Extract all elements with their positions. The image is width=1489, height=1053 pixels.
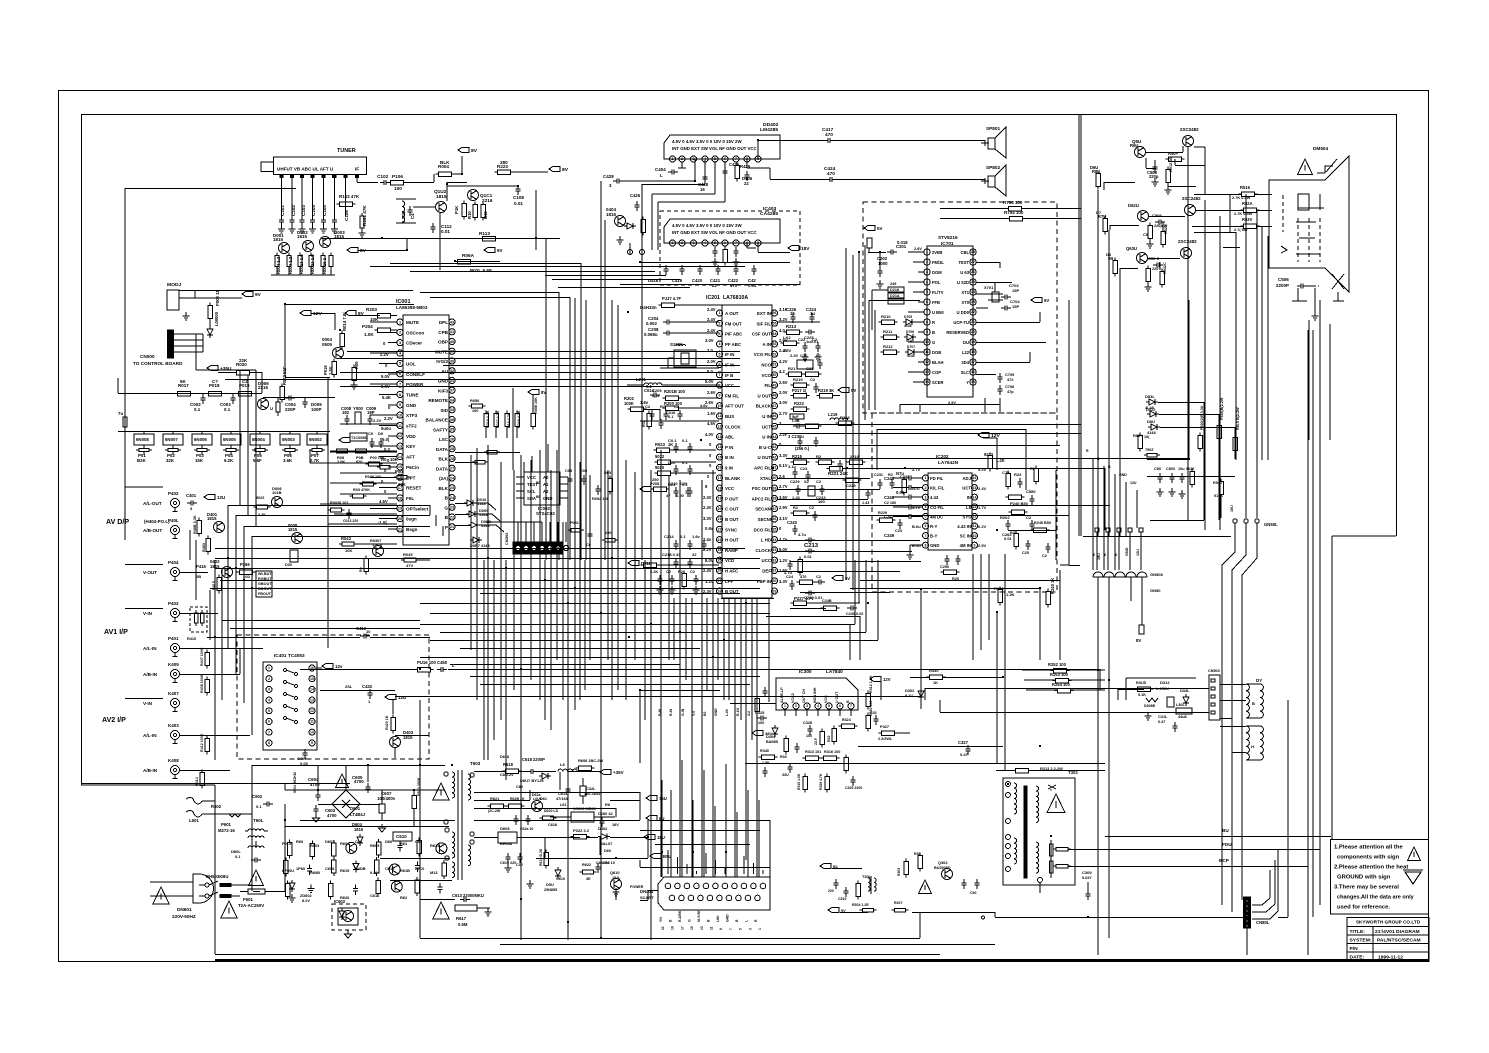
capacitor C204 C208	[644, 316, 719, 337]
svg-text:9: 9	[719, 394, 721, 398]
svg-text:VCC: VCC	[725, 383, 735, 388]
FBT bottom pin	[1038, 870, 1093, 900]
svg-text:2.7V: 2.7V	[779, 484, 788, 489]
svg-text:43: 43	[773, 445, 777, 449]
svg-text:4148: 4148	[907, 354, 915, 358]
svg-text:BLK: BLK	[440, 160, 450, 165]
svg-text:RESERVED: RESERVED	[946, 330, 969, 335]
op-amp IC201 LA76810 box	[706, 295, 772, 598]
heater circuit parts	[1147, 460, 1235, 499]
svg-text:14: 14	[973, 495, 977, 499]
horizontal out parts	[914, 852, 980, 895]
svg-text:LA76810A: LA76810A	[723, 295, 748, 301]
scart bottom labels	[661, 926, 762, 930]
svg-text:INT GND EXT SW VOL NF GND: INT GND EXT SW VOL NF GND OUT VCC	[672, 146, 758, 151]
svg-text:A/L-OUT: A/L-OUT	[143, 501, 162, 506]
svg-text:100P: 100P	[311, 407, 321, 412]
svg-text:C616: C616	[548, 823, 557, 827]
wire crt rgb feeds	[1192, 147, 1272, 227]
svg-text:LA7642N: LA7642N	[938, 460, 959, 465]
svg-text:LM4285: LM4285	[760, 127, 778, 133]
svg-text:C21: C21	[806, 366, 814, 371]
power extra wires	[474, 772, 640, 858]
svg-text:GN508: GN508	[1150, 572, 1163, 577]
svg-text:C328: C328	[803, 721, 812, 725]
svg-text:P00: P00	[395, 469, 403, 474]
svg-text:6N006: 6N006	[194, 437, 207, 442]
svg-text:5.0(: 5.0(	[382, 437, 390, 442]
svg-text:R249 B50: R249 B50	[1034, 521, 1051, 525]
svg-text:C05: C05	[565, 468, 573, 473]
P403 dashed box	[187, 607, 207, 641]
svg-text:(H404-PO.L): (H404-PO.L)	[144, 519, 170, 524]
svg-text:UCC: UCC	[762, 558, 772, 563]
driver transformer T301	[838, 874, 909, 912]
svg-text:R049 4.7K: R049 4.7K	[517, 410, 521, 428]
svg-text:C310: C310	[838, 897, 846, 901]
IC001 pin voltage labels	[378, 341, 393, 525]
svg-text:11: 11	[925, 350, 929, 354]
IC201 left pins	[717, 310, 745, 594]
svg-text:PU16 100: PU16 100	[417, 660, 437, 665]
snubber C610 box	[393, 832, 412, 841]
svg-text:0.01: 0.01	[441, 229, 450, 234]
svg-text:50: 50	[773, 373, 777, 377]
flag 5V ic701	[864, 225, 882, 252]
svg-text:SIF FIL: SIF FIL	[756, 321, 771, 326]
svg-text:C31L: C31L	[1158, 714, 1168, 719]
svg-text:54: 54	[773, 332, 777, 336]
inductor L201	[627, 377, 719, 398]
svg-text:R622: R622	[582, 863, 591, 867]
svg-text:D60: D60	[385, 839, 392, 844]
svg-text:D402: D402	[598, 826, 607, 831]
svg-text:15: 15	[718, 455, 722, 459]
svg-text:100: 100	[472, 409, 478, 413]
svg-text:3: 3	[399, 341, 401, 345]
svg-text:2.0K: 2.0K	[337, 459, 345, 464]
svg-text:PAL/NTSC/SECAM: PAL/NTSC/SECAM	[1377, 938, 1421, 944]
IC202 dashed box	[872, 413, 1057, 592]
wire R017 rail	[118, 378, 262, 540]
svg-text:B-IN: B-IN	[658, 708, 662, 716]
svg-text:D5U: D5U	[546, 882, 554, 887]
svg-text:GND: GND	[930, 543, 939, 548]
notes warning triangle sign	[1407, 847, 1420, 861]
svg-text:U IN: U IN	[762, 435, 771, 440]
svg-text:25: 25	[971, 280, 975, 284]
svg-text:B.0u: B.0u	[912, 543, 921, 548]
svg-text:C2: C2	[812, 337, 818, 342]
svg-text:2: 2	[681, 157, 683, 161]
wire cn801 steps	[1252, 850, 1278, 919]
resistor R017	[175, 379, 194, 396]
resistor R525 rot	[1217, 397, 1224, 441]
svg-text:3.2V: 3.2V	[779, 317, 788, 322]
resistor P322 2.2	[571, 826, 613, 846]
svg-text:21'/4V01 DIAGRAM: 21'/4V01 DIAGRAM	[1375, 929, 1420, 935]
svg-text:1.2V: 1.2V	[779, 558, 788, 563]
svg-text:100: 100	[806, 734, 812, 738]
transistor D401	[193, 512, 225, 555]
wire right edge verticals	[1278, 700, 1288, 918]
svg-text:C326 2200: C326 2200	[845, 786, 862, 790]
svg-text:10: 10	[310, 730, 314, 734]
svg-text:P02L 5.6F: P02L 5.6F	[470, 268, 492, 273]
svg-text:R4DB: R4DB	[355, 866, 366, 871]
svg-text:35: 35	[450, 428, 454, 432]
capacitor C002	[190, 394, 206, 412]
svg-text:4.6v: 4.6v	[700, 403, 708, 408]
svg-text:F0L: F0L	[406, 496, 414, 501]
svg-text:D705: D705	[904, 315, 912, 319]
transistor Q102	[434, 189, 447, 213]
svg-text:DATE:: DATE:	[1350, 955, 1365, 961]
svg-text:40: 40	[773, 476, 777, 480]
svg-text:8.2V: 8.2V	[302, 898, 310, 903]
svg-text:4.7u: 4.7u	[779, 537, 788, 542]
svg-text:3: 3	[268, 688, 270, 692]
svg-text:7: 7	[268, 730, 270, 734]
svg-text:D308B: D308B	[1144, 704, 1155, 708]
svg-text:REMOTE: REMOTE	[428, 398, 448, 403]
svg-text:9V: 9V	[497, 248, 502, 253]
svg-text:3D4: 3D4	[961, 360, 969, 365]
capacitor C004 220P	[285, 396, 296, 413]
svg-text:3.0V: 3.0V	[705, 338, 714, 343]
capacitor C504	[1143, 213, 1168, 248]
flag 12V ic202	[978, 432, 1001, 470]
svg-text:R21: R21	[788, 366, 796, 371]
svg-text:C106: C106	[344, 210, 349, 221]
component vco cluster	[786, 353, 823, 376]
svg-text:R050: R050	[470, 398, 479, 403]
transistor Q502	[1128, 196, 1201, 222]
wire bus mid right extra	[850, 570, 1060, 660]
resistor P019	[236, 379, 255, 396]
svg-text:15: 15	[310, 677, 314, 681]
svg-text:C30: C30	[970, 891, 977, 895]
svg-text:1815: 1815	[436, 194, 447, 199]
svg-text:OSCcon: OSCcon	[406, 330, 424, 335]
svg-text:C611: C611	[370, 893, 380, 898]
svg-text:0.002: 0.002	[646, 321, 657, 326]
svg-text:TO CONTROL BOARD: TO CONTROL BOARD	[133, 361, 183, 366]
IC201 left voltage labels	[703, 307, 716, 594]
wire ic002 up	[524, 444, 548, 472]
wire scart ups	[668, 850, 763, 874]
capacitor C108	[513, 185, 524, 206]
svg-text:P017 4.7K: P017 4.7K	[496, 410, 500, 428]
svg-text:R8L5 B(2-2W: R8L5 B(2-2W	[1236, 407, 1240, 430]
svg-text:XTF3: XTF3	[406, 413, 418, 418]
svg-text:R058 10K: R058 10K	[534, 397, 538, 414]
svg-text:DCO FIL: DCO FIL	[754, 527, 772, 532]
transistor D007 1815	[359, 538, 384, 575]
svg-text:P401: P401	[168, 636, 179, 641]
svg-text:C506: C506	[1278, 277, 1289, 282]
svg-text:PJJ7 4.7F: PJJ7 4.7F	[662, 296, 682, 301]
transistor D001 D002 D003 row	[273, 230, 345, 254]
svg-text:12U: 12U	[1136, 549, 1140, 556]
svg-text:D620 LD: D620 LD	[544, 809, 559, 813]
wire bus midleft extra	[222, 505, 443, 629]
svg-text:C327: C327	[958, 740, 969, 745]
svg-text:P1K: P1K	[454, 205, 459, 214]
wire bus top center	[225, 352, 740, 387]
svg-text:7: 7	[735, 241, 737, 245]
svg-text:FM OUT: FM OUT	[725, 321, 742, 326]
svg-text:R608 1BC-2W: R608 1BC-2W	[578, 758, 604, 763]
svg-text:R32: R32	[827, 735, 831, 742]
svg-text:5: 5	[739, 928, 743, 930]
svg-text:12: 12	[398, 434, 402, 438]
svg-text:C509: C509	[1152, 213, 1162, 218]
wire crt q wires	[1104, 146, 1240, 276]
wire fbt bottom	[912, 912, 1245, 919]
tuner pins	[280, 175, 359, 217]
svg-text:R229: R229	[878, 511, 887, 515]
wire R06A line	[370, 247, 745, 266]
svg-text:R25: R25	[952, 577, 959, 581]
connector CN801	[1244, 897, 1270, 955]
wire bundle corner right	[770, 560, 878, 641]
svg-text:3: 3	[719, 332, 721, 336]
svg-text:16: 16	[700, 187, 705, 192]
svg-text:C2 160: C2 160	[884, 501, 896, 505]
svg-text:STV8216: STV8216	[938, 235, 958, 240]
svg-text:DATA: DATA	[436, 447, 449, 452]
svg-text:L: L	[660, 173, 663, 178]
svg-text:CND02: CND02	[505, 533, 509, 545]
svg-text:EXT IN: EXT IN	[757, 311, 771, 316]
resistor P227	[791, 596, 861, 605]
svg-text:3: 3	[925, 495, 927, 499]
svg-text:12v: 12v	[335, 664, 343, 669]
FBT windings	[1014, 783, 1056, 878]
svg-text:BLK: BLK	[439, 486, 449, 491]
svg-text:2.4V: 2.4V	[707, 328, 716, 333]
svg-text:A/B-OUT: A/B-OUT	[143, 528, 162, 533]
svg-text:D618: D618	[500, 755, 509, 759]
resistor P016	[323, 359, 336, 378]
svg-text:UCP-TU: UCP-TU	[953, 320, 969, 325]
IC201 right voltage labels	[779, 307, 788, 584]
svg-text:7: 7	[729, 928, 733, 930]
thermistor R617	[420, 893, 492, 927]
svg-text:12V: 12V	[883, 677, 891, 682]
svg-text:22: 22	[971, 310, 975, 314]
component TIC0058 box	[339, 431, 384, 448]
svg-text:R2: R2	[1030, 467, 1035, 471]
FBT pins	[1006, 782, 1011, 872]
svg-text:LPF: LPF	[725, 579, 734, 584]
svg-text:26: 26	[971, 270, 975, 274]
svg-text:M13: M13	[430, 870, 438, 875]
connector DN404 scart	[640, 877, 770, 910]
svg-text:P07: P07	[311, 453, 319, 458]
wire vertical 328	[328, 378, 513, 648]
svg-text:C803: C803	[1166, 467, 1175, 471]
svg-text:P106: P106	[392, 174, 403, 179]
svg-text:P03: P03	[196, 453, 204, 458]
yoke wires	[1220, 685, 1246, 753]
svg-text:C249: C249	[884, 533, 895, 538]
svg-text:Y000: Y000	[353, 406, 364, 411]
svg-text:H AFC: H AFC	[725, 569, 739, 574]
svg-text:R307: R307	[894, 901, 902, 905]
flag 8V rf	[549, 166, 569, 173]
svg-text:2.4V: 2.4V	[978, 486, 987, 491]
resistor network 6N00x row	[118, 432, 330, 456]
svg-text:2SC2482: 2SC2482	[1182, 196, 1201, 201]
resistor R252 R253 R254	[1022, 662, 1105, 693]
svg-text:1u: 1u	[810, 311, 815, 316]
svg-text:4.5V 0 4.5V 3.5V 0 0 10V: 4.5V 0 4.5V 3.5V 0 0 10V 0 15V 2W	[672, 139, 742, 144]
svg-text:12U: 12U	[1130, 481, 1137, 485]
svg-text:2.0V: 2.0V	[707, 359, 716, 364]
capacitor C402	[297, 749, 309, 766]
svg-text:19: 19	[398, 507, 402, 511]
svg-text:IF: IF	[355, 167, 359, 172]
inductor L615	[558, 762, 600, 772]
svg-text:C2: C2	[816, 574, 821, 579]
svg-text:47: 47	[773, 404, 777, 408]
svg-text:3.6K: 3.6K	[283, 458, 293, 463]
svg-text:SCER: SCER	[932, 380, 943, 385]
tuner section box wire	[125, 188, 296, 487]
svg-text:47/160: 47/160	[556, 796, 568, 801]
svg-text:R102 47K: R102 47K	[339, 194, 360, 199]
svg-text:470: 470	[730, 283, 738, 288]
svg-text:14: 14	[718, 445, 722, 449]
svg-text:9: 9	[311, 741, 313, 745]
IC701 dashed box	[863, 202, 1057, 413]
title block grid	[1347, 926, 1429, 961]
svg-text:R0021 1.9: R0021 1.9	[310, 254, 315, 274]
resistor R004 R012 R021 R015 bank	[271, 253, 335, 276]
svg-text:1815: 1815	[288, 527, 298, 532]
svg-text:C401: C401	[186, 493, 197, 498]
svg-text:1: 1	[399, 320, 401, 324]
svg-text:9232: 9232	[984, 452, 994, 457]
linearity box	[1118, 678, 1196, 700]
svg-text:R219: R219	[793, 377, 803, 382]
svg-text:R004 1.2: R004 1.2	[288, 256, 293, 274]
svg-text:VDD: VDD	[406, 434, 416, 439]
svg-text:6.2K: 6.2K	[224, 458, 234, 463]
svg-text:K408: K408	[168, 758, 179, 763]
svg-text:R516: R516	[1240, 185, 1251, 190]
svg-text:POL: POL	[932, 280, 941, 285]
svg-text:C103: C103	[301, 205, 306, 216]
svg-text:34: 34	[773, 538, 777, 542]
capacitor C016	[642, 410, 676, 430]
svg-text:4M IN: 4M IN	[960, 543, 971, 548]
svg-text:D312: D312	[1160, 680, 1170, 685]
svg-text:FBP IN: FBP IN	[757, 579, 771, 584]
resistor R840 510K	[1213, 479, 1234, 519]
svg-text:C102: C102	[291, 205, 296, 216]
svg-text:1: 1	[672, 157, 674, 161]
svg-text:R604: R604	[340, 841, 350, 846]
svg-text:18V: 18V	[801, 246, 810, 251]
svg-text:CN80L: CN80L	[1256, 920, 1270, 925]
transistor D404 1815	[606, 193, 645, 244]
svg-text:AU: AU	[747, 711, 751, 716]
svg-text:P02: P02	[167, 453, 175, 458]
svg-text:28: 28	[971, 250, 975, 254]
svg-text:OUT CH: OUT CH	[802, 689, 806, 703]
svg-text:C4: C4	[410, 213, 415, 219]
warning triangle fbt	[1047, 794, 1065, 813]
svg-text:AV2 I/P: AV2 I/P	[102, 716, 126, 724]
diode D4H33	[640, 296, 722, 310]
heater square pins	[1095, 528, 1143, 570]
svg-text:4: 4	[926, 280, 928, 284]
svg-text:2.4V: 2.4V	[703, 505, 712, 510]
flag +35V	[207, 365, 237, 372]
svg-text:C419: C419	[672, 278, 683, 283]
transistor Q503	[1126, 239, 1197, 264]
svg-text:P404: P404	[168, 560, 179, 565]
svg-text:44: 44	[773, 435, 777, 439]
svg-text:21: 21	[450, 525, 454, 529]
flag H8U	[628, 560, 719, 567]
svg-text:5.0V: 5.0V	[381, 374, 390, 379]
svg-text:A/B-IN: A/B-IN	[143, 768, 158, 773]
svg-text:30: 30	[773, 579, 777, 583]
svg-text:2.4V: 2.4V	[707, 307, 716, 312]
svg-text:5: 5	[714, 241, 716, 245]
svg-text:C105: C105	[322, 205, 327, 216]
svg-text:IF B: IF B	[725, 373, 733, 378]
crystal X701	[984, 282, 1049, 311]
svg-text:6: 6	[925, 524, 927, 528]
capacitor C614 C321	[556, 778, 601, 804]
resistor R024 10K	[394, 469, 410, 487]
resistor R8U flag1	[1090, 165, 1100, 190]
svg-text:0.01: 0.01	[748, 283, 757, 288]
wire ic201 to right lower	[640, 690, 776, 763]
svg-text:2.4V: 2.4V	[703, 495, 712, 500]
svg-text:R06A: R06A	[462, 253, 475, 258]
svg-text:5.1K: 5.1K	[1138, 693, 1146, 697]
svg-text:2VB8: 2VB8	[932, 250, 943, 255]
svg-text:36: 36	[450, 418, 454, 422]
svg-text:23: 23	[450, 506, 454, 510]
linearity parts	[1135, 680, 1193, 732]
svg-text:R23: R23	[1014, 472, 1022, 477]
resistor R050	[469, 398, 486, 413]
IC202 voltage labels	[912, 467, 987, 548]
svg-text:C101: C101	[280, 205, 285, 216]
svg-text:5020: 5020	[655, 465, 665, 470]
svg-text:C OUT: C OUT	[725, 507, 739, 512]
wire ac rail top	[81, 783, 350, 891]
svg-text:P04: P04	[225, 453, 233, 458]
svg-text:D18 4.7K: D18 4.7K	[507, 412, 511, 428]
svg-text:UCT: UCT	[762, 424, 771, 429]
svg-text:+35U: +35U	[220, 366, 232, 371]
transistor D403 1815	[390, 730, 430, 758]
svg-text:12: 12	[310, 709, 314, 713]
svg-text:45: 45	[773, 425, 777, 429]
resistor R213	[784, 324, 820, 344]
resistor R111 R110 bank	[454, 201, 488, 221]
svg-text:C618 2200P: C618 2200P	[522, 757, 545, 762]
svg-text:5: 5	[828, 704, 830, 708]
